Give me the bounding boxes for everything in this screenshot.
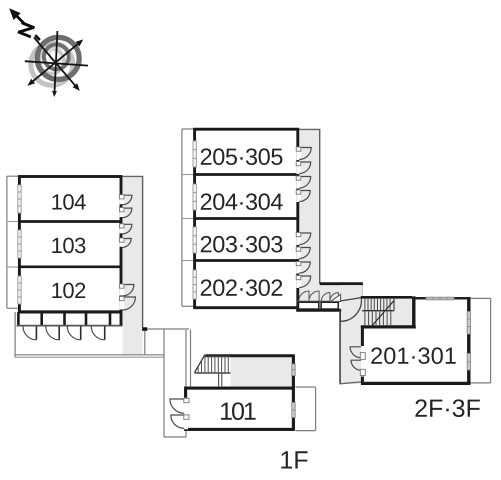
middle balcony — [182, 129, 195, 306]
label 104 — [52, 194, 61, 209]
window 201 right lower — [467, 354, 470, 371]
compass outer ring — [37, 37, 79, 79]
label 203·303 — [201, 236, 212, 252]
window 201 right upper — [467, 312, 470, 335]
stair hall (gray) — [341, 285, 363, 384]
101 door swing 1 — [170, 399, 184, 413]
label 102 — [52, 283, 61, 298]
1F stairs — [195, 355, 231, 387]
window room 102 — [18, 276, 21, 304]
201 door leaf 1 — [360, 353, 365, 360]
201 door swing 2 — [351, 360, 361, 370]
left building balcony — [7, 176, 19, 308]
room 201 left wall — [361, 326, 364, 385]
compass shadow outer ring — [31, 43, 73, 85]
door openings middle corridor wall — [296, 147, 300, 288]
passage lines — [145, 329, 191, 437]
mailbox boxes — [298, 302, 339, 309]
window room 103 — [18, 230, 21, 258]
201 door swing 1 — [350, 347, 361, 358]
divider 103/102 — [19, 265, 121, 268]
step wedge — [331, 294, 341, 301]
mailbox doors 1 — [299, 291, 319, 301]
101 door leaf 1 — [184, 398, 189, 402]
left corridor door leafs — [119, 195, 124, 301]
label 103 — [52, 238, 61, 253]
entry walkway outline — [15, 312, 165, 357]
101 porch top wall — [206, 354, 295, 357]
middle rooms outer wall — [195, 129, 298, 308]
corridor corner wall — [320, 284, 363, 297]
door openings left corridor wall — [120, 195, 124, 310]
window room 203 — [193, 227, 196, 253]
porch left wall — [339, 310, 341, 384]
north arrowhead — [9, 8, 21, 20]
label 101 — [221, 403, 232, 420]
mailbox doors 2 — [321, 293, 338, 302]
room 201 right wall — [467, 297, 470, 384]
divider 104/103 — [19, 220, 121, 223]
arrowhead SW — [27, 79, 35, 86]
stair hall door leaf — [341, 298, 362, 301]
divider 203/202 — [195, 259, 298, 262]
compass inner ring — [44, 44, 69, 69]
201 balcony — [471, 298, 491, 383]
101 door leaf 2 — [184, 415, 189, 419]
storage box row (1F entrances) — [17, 312, 122, 326]
middle corridor door swings — [299, 148, 311, 288]
101 porch (gray) — [231, 357, 294, 388]
window room 205 — [193, 141, 196, 167]
stair hall door swing — [341, 298, 362, 322]
window room 104 — [18, 185, 21, 213]
north arrow shaft — [14, 13, 40, 40]
middle corridor door leafs — [296, 147, 301, 280]
stairwell (gray) — [362, 297, 415, 327]
room 101 walls — [186, 388, 294, 429]
compass innermost light arc — [50, 48, 62, 61]
window 101 porch — [292, 364, 295, 376]
letter N — [18, 23, 35, 38]
room 201 fill — [364, 299, 468, 382]
entrance door swings — [23, 326, 105, 339]
compass shadow inner ring — [39, 49, 64, 74]
compass N-S line — [54, 31, 57, 95]
room 201 bottom wall — [361, 382, 471, 385]
label 2F·3F — [415, 399, 426, 416]
window room 202 — [193, 270, 196, 299]
label 202·302 — [201, 279, 212, 295]
divider 204/203 — [195, 217, 298, 220]
mailbox shelf line — [296, 300, 341, 302]
pillar (black square) — [142, 327, 147, 331]
corridor bottom wall — [296, 309, 341, 312]
arrowhead S — [52, 91, 57, 97]
label 204·304 — [201, 193, 212, 209]
2F stairs — [361, 296, 416, 327]
label 205·305 — [201, 148, 212, 164]
compass NW-SE arrow — [34, 38, 78, 90]
middle corridor (gray) — [298, 129, 363, 301]
101 door swing 2 — [171, 415, 184, 428]
window 101 room — [292, 403, 295, 418]
arrowhead NE — [76, 39, 84, 46]
window room 204 — [193, 184, 196, 210]
201 door openings — [361, 346, 365, 377]
label 201·301 — [371, 347, 382, 363]
porch bottom edge — [340, 382, 362, 384]
compass rose — [9, 8, 88, 97]
room 201 top wall — [412, 297, 471, 300]
101 door openings — [183, 398, 188, 430]
101 right wall upper — [292, 355, 295, 389]
window 201 top — [426, 297, 454, 300]
arrowhead SE — [73, 83, 80, 91]
201 door leaf 2 — [360, 369, 365, 375]
left corridor (gray) — [121, 176, 143, 354]
divider 205/204 — [195, 173, 298, 176]
label 1F — [281, 451, 292, 468]
101 balcony — [296, 387, 316, 431]
left corridor door swings — [122, 195, 135, 310]
compass E-W line — [25, 61, 88, 65]
left rooms outer wall — [19, 177, 121, 312]
compass SW-NE arrow — [29, 41, 81, 84]
